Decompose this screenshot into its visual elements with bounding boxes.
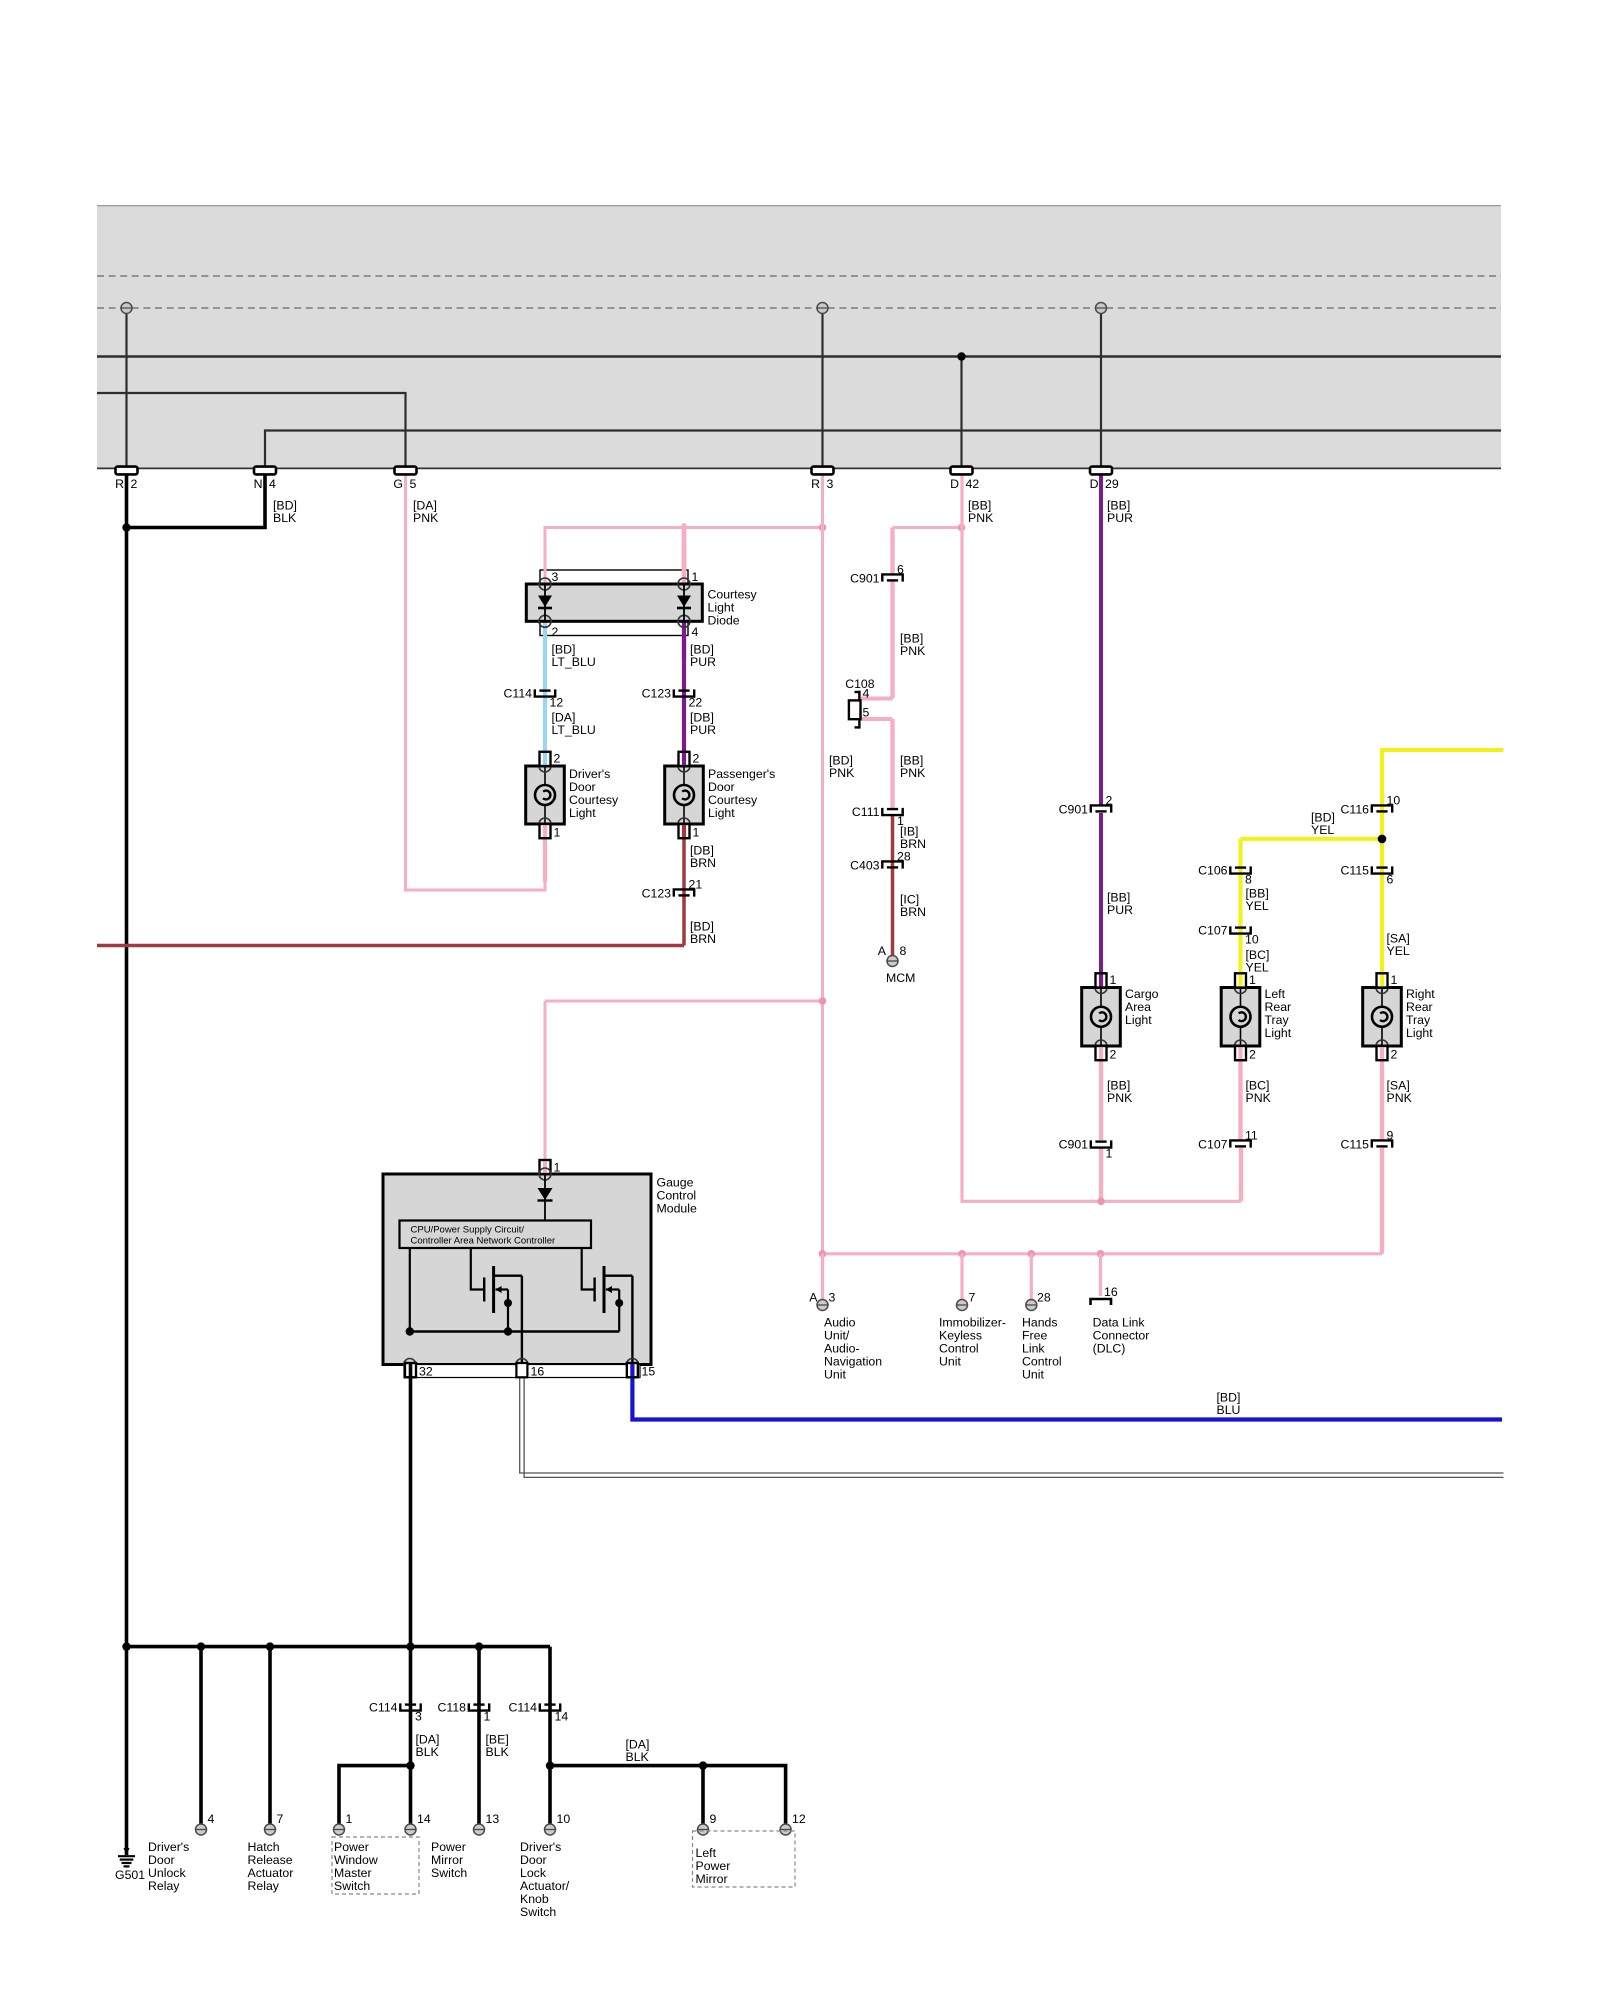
svg-text:C106: C106 [1198, 864, 1228, 878]
svg-text:Connector: Connector [1093, 1329, 1150, 1343]
svg-text:1: 1 [554, 826, 561, 840]
svg-text:4: 4 [208, 1812, 215, 1826]
svg-text:Link: Link [1022, 1342, 1045, 1356]
svg-text:PUR: PUR [690, 655, 716, 669]
svg-text:Rear: Rear [1265, 1000, 1292, 1014]
svg-text:Window: Window [334, 1853, 378, 1867]
svg-text:Module: Module [657, 1202, 697, 1216]
svg-text:Door: Door [148, 1853, 175, 1867]
svg-text:Light: Light [708, 806, 735, 820]
svg-text:C114: C114 [504, 687, 533, 701]
svg-text:PNK: PNK [1246, 1091, 1272, 1105]
svg-text:28: 28 [1037, 1291, 1051, 1305]
svg-text:BRN: BRN [900, 905, 926, 919]
svg-text:4: 4 [692, 625, 699, 639]
svg-text:2: 2 [131, 477, 138, 491]
svg-text:Switch: Switch [334, 1879, 370, 1893]
svg-text:Gauge: Gauge [657, 1176, 694, 1190]
svg-text:C111: C111 [852, 805, 880, 819]
svg-text:Light: Light [569, 806, 596, 820]
svg-text:28: 28 [897, 850, 911, 864]
svg-text:Mirror: Mirror [431, 1853, 463, 1867]
svg-text:Audio: Audio [824, 1316, 856, 1330]
svg-text:Control: Control [657, 1189, 697, 1203]
svg-text:BLU: BLU [1217, 1403, 1241, 1417]
svg-text:22: 22 [689, 696, 703, 710]
svg-text:Switch: Switch [520, 1905, 556, 1919]
svg-text:4: 4 [863, 686, 870, 700]
svg-text:10: 10 [557, 1812, 571, 1826]
svg-text:Navigation: Navigation [824, 1355, 882, 1369]
svg-text:R: R [811, 477, 820, 491]
svg-text:PUR: PUR [1107, 903, 1133, 917]
svg-text:3: 3 [829, 1291, 836, 1305]
svg-text:PNK: PNK [413, 511, 439, 525]
svg-text:10: 10 [1245, 933, 1259, 947]
svg-text:21: 21 [689, 878, 703, 892]
svg-text:2: 2 [554, 752, 561, 766]
svg-text:D: D [950, 477, 959, 491]
svg-text:C901: C901 [1059, 1138, 1089, 1152]
svg-text:1: 1 [554, 1161, 561, 1175]
svg-text:BLK: BLK [416, 1745, 440, 1759]
svg-text:1: 1 [1249, 973, 1256, 987]
svg-text:Tray: Tray [1265, 1013, 1290, 1027]
svg-text:Door: Door [708, 780, 735, 794]
svg-text:C107: C107 [1198, 1138, 1228, 1152]
svg-text:16: 16 [1104, 1285, 1118, 1299]
svg-text:Hands: Hands [1022, 1316, 1058, 1330]
svg-text:32: 32 [419, 1365, 433, 1379]
svg-text:Driver's: Driver's [148, 1840, 189, 1854]
svg-text:2: 2 [1249, 1048, 1256, 1062]
svg-text:BRN: BRN [690, 932, 716, 946]
svg-text:1: 1 [484, 1710, 491, 1724]
svg-text:2: 2 [552, 625, 559, 639]
svg-text:Courtesy: Courtesy [708, 588, 758, 602]
svg-text:C115: C115 [1341, 864, 1370, 878]
svg-text:1: 1 [693, 826, 700, 840]
svg-text:Courtesy: Courtesy [569, 793, 619, 807]
svg-text:MCM: MCM [886, 971, 915, 985]
svg-text:12: 12 [550, 696, 564, 710]
svg-text:7: 7 [277, 1812, 284, 1826]
svg-text:Immobilizer-: Immobilizer- [939, 1316, 1006, 1330]
svg-text:29: 29 [1105, 477, 1119, 491]
svg-text:Driver's: Driver's [520, 1840, 561, 1854]
svg-text:Lock: Lock [520, 1866, 547, 1880]
svg-text:8: 8 [900, 944, 907, 958]
svg-text:5: 5 [410, 477, 417, 491]
svg-text:C118: C118 [438, 1701, 467, 1715]
svg-text:D: D [1090, 477, 1099, 491]
svg-text:9: 9 [1387, 1129, 1394, 1143]
svg-text:Power: Power [696, 1859, 731, 1873]
svg-text:10: 10 [1387, 794, 1401, 808]
svg-text:PNK: PNK [900, 644, 926, 658]
svg-text:Unit/: Unit/ [824, 1329, 850, 1343]
svg-text:Left: Left [1265, 987, 1286, 1001]
svg-text:Area: Area [1125, 1000, 1151, 1014]
svg-text:A: A [878, 944, 887, 958]
svg-text:PNK: PNK [829, 766, 855, 780]
svg-text:3: 3 [552, 570, 559, 584]
svg-text:PNK: PNK [1107, 1091, 1133, 1105]
svg-text:Control: Control [1022, 1355, 1062, 1369]
svg-text:Controller Area Network Contro: Controller Area Network Controller [411, 1235, 556, 1246]
svg-text:BRN: BRN [690, 856, 716, 870]
svg-text:Release: Release [248, 1853, 293, 1867]
svg-text:Unit: Unit [824, 1368, 846, 1382]
svg-text:BLK: BLK [486, 1745, 510, 1759]
svg-text:C108: C108 [845, 677, 875, 691]
svg-text:8: 8 [1245, 873, 1252, 887]
svg-text:CPU/Power Supply Circuit/: CPU/Power Supply Circuit/ [411, 1225, 525, 1236]
svg-text:Knob: Knob [520, 1892, 549, 1906]
svg-text:16: 16 [531, 1365, 545, 1379]
svg-text:Mirror: Mirror [696, 1872, 728, 1886]
svg-text:3: 3 [827, 477, 834, 491]
svg-text:15: 15 [642, 1365, 656, 1379]
svg-text:Power: Power [431, 1840, 466, 1854]
svg-text:BLK: BLK [626, 1750, 650, 1764]
svg-text:BRN: BRN [900, 837, 926, 851]
svg-text:N: N [254, 477, 263, 491]
svg-text:Unlock: Unlock [148, 1866, 186, 1880]
svg-text:7: 7 [969, 1291, 976, 1305]
svg-text:YEL: YEL [1246, 899, 1269, 913]
svg-text:YEL: YEL [1387, 944, 1410, 958]
svg-text:LT_BLU: LT_BLU [552, 723, 596, 737]
svg-text:42: 42 [966, 477, 980, 491]
svg-text:PNK: PNK [1387, 1091, 1413, 1105]
svg-text:9: 9 [710, 1812, 717, 1826]
svg-text:Diode: Diode [708, 614, 740, 628]
svg-text:Rear: Rear [1406, 1000, 1433, 1014]
svg-text:PUR: PUR [690, 723, 716, 737]
svg-text:C114: C114 [369, 1701, 398, 1715]
svg-text:C123: C123 [642, 887, 672, 901]
svg-text:Cargo: Cargo [1125, 987, 1159, 1001]
svg-text:Unit: Unit [939, 1355, 961, 1369]
svg-text:13: 13 [486, 1812, 500, 1826]
svg-text:6: 6 [1387, 873, 1394, 887]
svg-text:2: 2 [1110, 1048, 1117, 1062]
svg-text:2: 2 [693, 752, 700, 766]
svg-text:Light: Light [1125, 1013, 1152, 1027]
svg-text:LT_BLU: LT_BLU [552, 655, 596, 669]
svg-text:C901: C901 [850, 572, 880, 586]
svg-text:1: 1 [692, 570, 699, 584]
svg-text:Switch: Switch [431, 1866, 467, 1880]
svg-text:3: 3 [415, 1710, 422, 1724]
svg-text:1: 1 [346, 1812, 353, 1826]
svg-text:BLK: BLK [273, 511, 297, 525]
svg-text:A: A [809, 1291, 818, 1305]
svg-text:Data Link: Data Link [1093, 1316, 1146, 1330]
svg-text:Relay: Relay [248, 1879, 280, 1893]
svg-text:Hatch: Hatch [248, 1840, 280, 1854]
svg-text:Passenger's: Passenger's [708, 767, 775, 781]
svg-text:(DLC): (DLC) [1093, 1342, 1126, 1356]
svg-text:Power: Power [334, 1840, 369, 1854]
svg-text:C123: C123 [642, 687, 672, 701]
svg-text:G501: G501 [115, 1868, 145, 1882]
svg-text:Actuator: Actuator [248, 1866, 294, 1880]
svg-text:Keyless: Keyless [939, 1329, 982, 1343]
svg-text:Master: Master [334, 1866, 372, 1880]
svg-text:PNK: PNK [968, 511, 994, 525]
svg-text:Left: Left [696, 1846, 717, 1860]
svg-text:C115: C115 [1341, 1138, 1370, 1152]
svg-text:YEL: YEL [1246, 961, 1269, 975]
svg-text:C901: C901 [1059, 803, 1089, 817]
svg-text:Tray: Tray [1406, 1013, 1431, 1027]
svg-text:R: R [115, 477, 124, 491]
svg-text:14: 14 [417, 1812, 431, 1826]
svg-text:Light: Light [1265, 1026, 1292, 1040]
svg-text:Light: Light [1406, 1026, 1433, 1040]
svg-text:Light: Light [708, 601, 735, 615]
svg-text:YEL: YEL [1311, 823, 1334, 837]
svg-text:Control: Control [939, 1342, 979, 1356]
svg-text:Door: Door [520, 1853, 547, 1867]
svg-text:11: 11 [1245, 1129, 1258, 1143]
svg-text:2: 2 [1106, 794, 1113, 808]
svg-text:Right: Right [1406, 987, 1435, 1001]
svg-text:Door: Door [569, 780, 596, 794]
svg-text:1: 1 [1106, 1147, 1113, 1161]
svg-text:14: 14 [555, 1710, 569, 1724]
svg-text:G: G [393, 477, 403, 491]
svg-text:PUR: PUR [1107, 511, 1133, 525]
svg-text:C403: C403 [850, 859, 880, 873]
svg-text:2: 2 [1391, 1048, 1398, 1062]
svg-text:6: 6 [897, 563, 904, 577]
svg-text:PNK: PNK [900, 766, 926, 780]
svg-text:C107: C107 [1198, 924, 1228, 938]
svg-text:1: 1 [1391, 973, 1398, 987]
svg-text:1: 1 [1110, 973, 1117, 987]
svg-text:Actuator/: Actuator/ [520, 1879, 570, 1893]
svg-text:C116: C116 [1341, 803, 1370, 817]
svg-text:C114: C114 [509, 1701, 538, 1715]
svg-text:Courtesy: Courtesy [708, 793, 758, 807]
svg-text:Unit: Unit [1022, 1368, 1044, 1382]
svg-text:Driver's: Driver's [569, 767, 610, 781]
svg-text:4: 4 [269, 477, 276, 491]
svg-text:5: 5 [863, 705, 870, 719]
svg-text:Audio-: Audio- [824, 1342, 860, 1356]
svg-text:Relay: Relay [148, 1879, 180, 1893]
svg-text:12: 12 [792, 1812, 806, 1826]
svg-text:Free: Free [1022, 1329, 1047, 1343]
